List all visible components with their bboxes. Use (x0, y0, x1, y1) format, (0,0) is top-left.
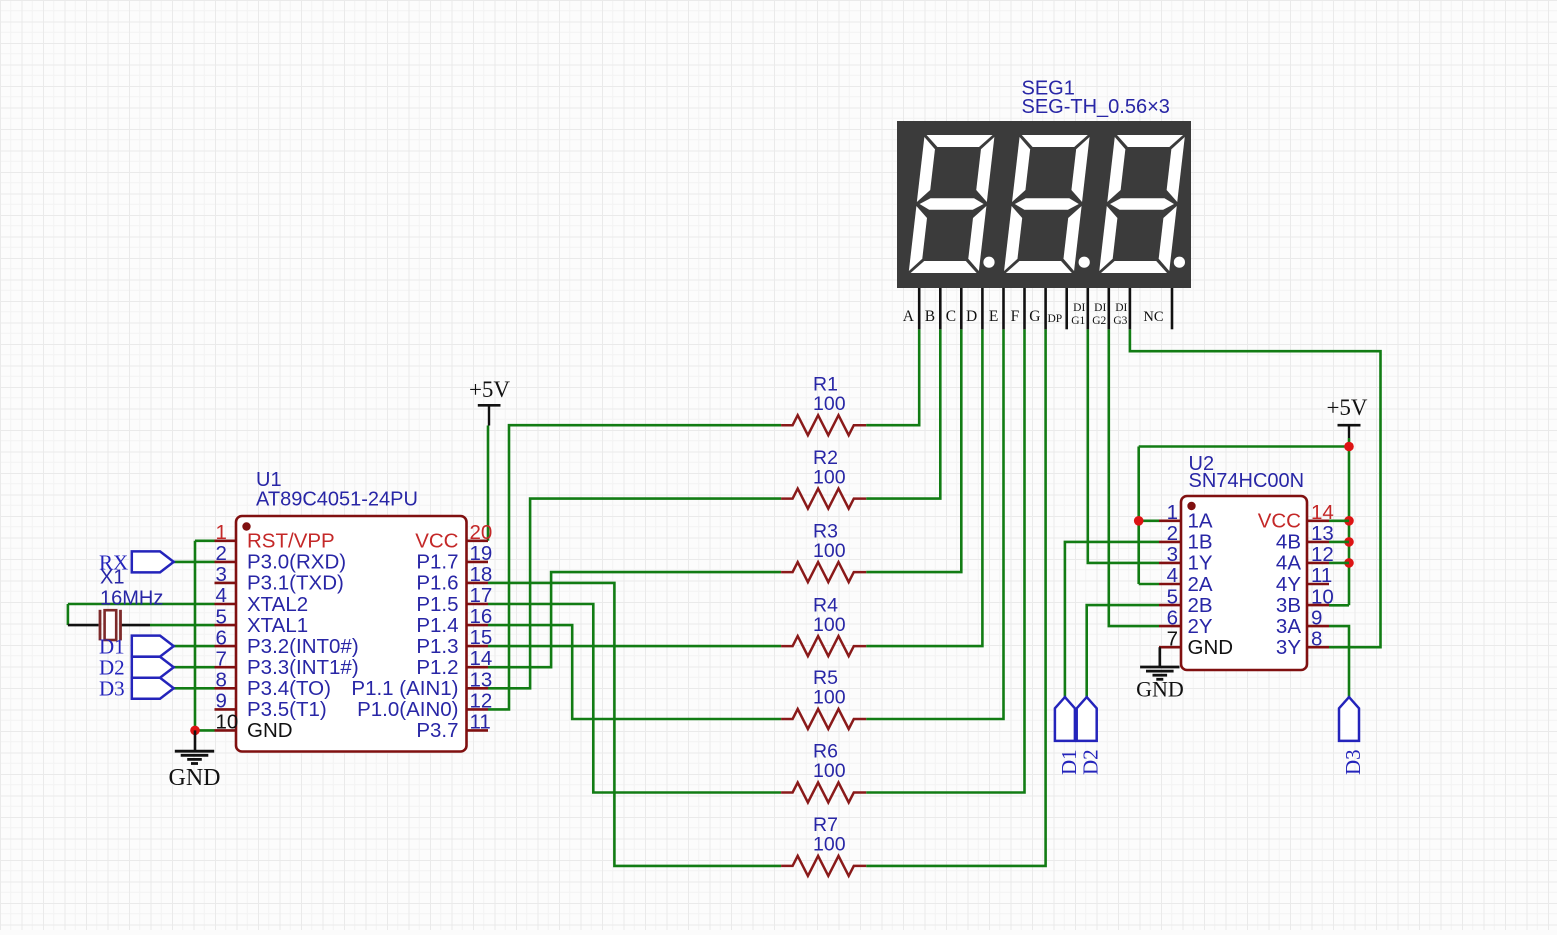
svg-text:P1.4: P1.4 (416, 614, 458, 637)
flag D1 (input, points right) (132, 636, 174, 657)
svg-text:VCC: VCC (1258, 510, 1301, 533)
svg-text:2B: 2B (1188, 594, 1213, 617)
svg-text:D1: D1 (1057, 749, 1081, 775)
svg-text:1: 1 (216, 521, 227, 544)
U1 pin 8 P3.4(TO) (215, 687, 237, 690)
svg-text:XTAL2: XTAL2 (247, 593, 308, 616)
flag D2 (input, points right) (132, 657, 174, 678)
display pin F (1023, 288, 1026, 329)
svg-text:P3.4(TO): P3.4(TO) (247, 677, 331, 700)
svg-text:E: E (989, 308, 998, 325)
svg-text:C: C (946, 308, 956, 325)
svg-text:100: 100 (813, 760, 846, 782)
svg-text:8: 8 (1311, 627, 1322, 650)
svg-text:SN74HC00N: SN74HC00N (1189, 470, 1305, 492)
wire net D2: U2 pin5 2B to D2 flag (1087, 605, 1159, 697)
svg-text:NC: NC (1143, 309, 1163, 325)
resistor R7 (781, 856, 866, 876)
svg-text:GND: GND (247, 719, 293, 742)
svg-text:P1.2: P1.2 (416, 656, 458, 679)
display digit 1 (909, 135, 995, 273)
resistor R3 (781, 562, 866, 582)
resistor R6 (781, 783, 866, 803)
svg-text:3: 3 (1167, 543, 1178, 566)
svg-text:GND: GND (169, 765, 221, 791)
svg-text:7: 7 (216, 647, 227, 670)
svg-text:D2: D2 (1079, 749, 1103, 775)
svg-text:RX: RX (99, 551, 128, 575)
U2 pin 2 1B (1159, 541, 1181, 544)
svg-text:3Y: 3Y (1276, 636, 1301, 659)
U1 pin 16 P1.4 (467, 624, 489, 627)
wire +5V to U2 pin10 3B (1329, 604, 1349, 607)
U1 pin 6 P3.2(INT0#) (215, 645, 237, 648)
svg-text:P1.0(AIN0): P1.0(AIN0) (357, 698, 458, 721)
resistor R4 (781, 636, 866, 656)
svg-text:10: 10 (1311, 585, 1334, 608)
wire +5V horizontal to left vertical (1139, 445, 1349, 448)
U2 pin 5 2B (1159, 604, 1181, 607)
svg-text:+5V: +5V (1326, 395, 1367, 420)
U2 pin 11 4Y (1307, 583, 1329, 586)
svg-text:4B: 4B (1276, 531, 1301, 554)
svg-text:2: 2 (216, 542, 227, 565)
wire RST net: pin1 stub to vertical (195, 539, 215, 542)
svg-text:11: 11 (470, 710, 491, 733)
svg-text:DP: DP (1047, 313, 1062, 325)
svg-text:12: 12 (470, 689, 493, 712)
display pin G (1044, 288, 1047, 329)
svg-text:G: G (1029, 308, 1040, 325)
svg-text:100: 100 (813, 834, 846, 856)
ground symbol below U2 pin7 (1159, 647, 1162, 667)
svg-text:GND: GND (1188, 636, 1234, 659)
resistor R1 (781, 415, 866, 435)
display pin DIG1 (1087, 288, 1090, 329)
svg-text:2Y: 2Y (1188, 615, 1213, 638)
svg-text:P1.7: P1.7 (416, 551, 458, 574)
svg-text:DI: DI (1115, 302, 1127, 314)
U1 pin 4 XTAL2 (215, 603, 237, 606)
wire crystal left lead (black) (68, 624, 99, 627)
U1 pin 15 P1.3 (467, 645, 489, 648)
wire DIG2 to U2 pin6 2Y (1109, 329, 1159, 626)
U1 pin 18 P1.6 (467, 582, 489, 585)
svg-text:6: 6 (216, 626, 227, 649)
wire net P1.3: U1 pin15 to R4 left (488, 645, 781, 648)
svg-text:P3.3(INT1#): P3.3(INT1#) (247, 656, 359, 679)
svg-text:DI: DI (1073, 302, 1085, 314)
U2 pin 10 3B (1307, 604, 1329, 607)
U2 pin 3 1Y (1159, 562, 1181, 565)
resistor R2 (781, 489, 866, 509)
U1 pin 12 P1.0(AIN0) (467, 708, 489, 711)
U2 pin 9 3A (1307, 625, 1329, 628)
wire D3 flag to U1 pin8 (174, 687, 215, 690)
display pin C (960, 288, 963, 329)
svg-text:A: A (903, 308, 915, 325)
svg-text:2: 2 (1167, 522, 1178, 545)
svg-text:100: 100 (813, 687, 846, 709)
svg-text:P1.1 (AIN1): P1.1 (AIN1) (351, 677, 458, 700)
svg-text:16MHz: 16MHz (100, 588, 163, 610)
svg-text:5: 5 (1167, 585, 1178, 608)
wire +5V vertical: bar to U2 pin10 corner (1348, 438, 1351, 605)
wire R6 to display segment F (866, 329, 1024, 792)
wire U2 pin12 4A to +5V (1329, 562, 1349, 565)
wire XTAL2 vertical down to crystal row (67, 604, 70, 625)
svg-text:7: 7 (1167, 627, 1178, 650)
wire U1 pin10 GND to junction (195, 729, 215, 732)
U1 pin 9 P3.5(T1) (215, 708, 237, 711)
wire XTAL1 to U1 pin5 (150, 624, 215, 627)
svg-text:AT89C4051-24PU: AT89C4051-24PU (256, 489, 418, 511)
U1 pin 11 P3.7 (467, 729, 489, 732)
wire RX flag to U1 pin2 (173, 561, 215, 564)
flag D2 (points up) (1077, 697, 1097, 741)
svg-text:G1: G1 (1071, 315, 1085, 327)
flag D1 (points up) (1055, 697, 1075, 741)
display pin D (981, 288, 984, 329)
svg-text:15: 15 (470, 626, 493, 649)
svg-text:14: 14 (1311, 501, 1334, 524)
wire net P1.6: U1 pin18 to R7 left (488, 583, 781, 866)
wire D2 flag to U1 pin7 (174, 666, 215, 669)
svg-text:5: 5 (216, 605, 227, 628)
svg-text:F: F (1011, 308, 1020, 325)
U2 pin 7 GND (1159, 646, 1181, 649)
display decimal point 2 (1079, 257, 1090, 268)
svg-text:P1.6: P1.6 (416, 572, 458, 595)
wire to U2 pin4 2A (1139, 583, 1159, 586)
svg-text:12: 12 (1311, 543, 1334, 566)
U2 pin1 indicator dot (1187, 502, 1195, 510)
display pin B (939, 288, 942, 329)
svg-text:P3.5(T1): P3.5(T1) (247, 698, 327, 721)
display pin DIG3 (1129, 288, 1132, 329)
wire +5V left vertical to U2 pin4 row (1137, 447, 1140, 585)
op-amp/IC U1 AT89C4051-24PU body (236, 516, 467, 752)
wire to U2 pin1 1A (1139, 519, 1159, 522)
svg-text:4: 4 (216, 584, 227, 607)
U2 pin 1 1A (1159, 519, 1181, 522)
svg-text:100: 100 (813, 540, 846, 562)
wire R1 to display segment A (866, 329, 919, 425)
U2 pin 13 4B (1307, 541, 1329, 544)
svg-text:SEG-TH_0.56×3: SEG-TH_0.56×3 (1022, 96, 1170, 118)
resistor R5 (781, 709, 866, 729)
svg-text:3B: 3B (1276, 594, 1301, 617)
wire +5V to U1 pin20 VCC (487, 426, 490, 541)
svg-text:2A: 2A (1188, 573, 1213, 596)
svg-text:1B: 1B (1188, 531, 1213, 554)
svg-text:P3.1(TXD): P3.1(TXD) (247, 572, 344, 595)
svg-text:14: 14 (470, 647, 493, 670)
U1 pin 10 GND (215, 729, 237, 732)
seven-segment display SEG1 body (897, 121, 1191, 288)
wire U2 pin14 VCC to +5V (1329, 519, 1349, 522)
svg-text:P1.5: P1.5 (416, 593, 458, 616)
svg-text:B: B (925, 308, 935, 325)
svg-text:RST/VPP: RST/VPP (247, 530, 335, 553)
flag D3 (points up) (1339, 697, 1359, 741)
display pin NC (1171, 288, 1174, 329)
wire crystal right lead (black) (120, 624, 151, 627)
ground symbol below U1 (194, 730, 197, 751)
wire R5 to display segment E (866, 329, 1003, 719)
display digit 3 (1099, 135, 1185, 273)
svg-text:4Y: 4Y (1276, 573, 1301, 596)
svg-text:16: 16 (470, 605, 493, 628)
svg-text:1Y: 1Y (1188, 552, 1213, 575)
wire U2 pin13 4B to +5V (1329, 541, 1349, 544)
wire R3 to display segment C (866, 329, 961, 572)
U1 pin 13 P1.1 (AIN1) (467, 687, 489, 690)
wire R4 to display segment D (866, 329, 982, 646)
svg-text:4: 4 (1167, 564, 1178, 587)
svg-text:11: 11 (1311, 564, 1332, 587)
svg-text:G3: G3 (1113, 315, 1127, 327)
U1 pin 17 P1.5 (467, 603, 489, 606)
display pin DIG2 (1108, 288, 1111, 329)
svg-text:+5V: +5V (469, 377, 510, 402)
junction +5V bar (1344, 442, 1354, 452)
svg-text:10: 10 (216, 711, 239, 734)
svg-text:19: 19 (470, 542, 493, 565)
U1 pin 1 RST/VPP (215, 539, 237, 542)
svg-text:8: 8 (216, 669, 227, 692)
svg-text:P1.3: P1.3 (416, 635, 458, 658)
svg-text:P3.0(RXD): P3.0(RXD) (247, 551, 346, 574)
wire net P1.1: U1 pin13 to R2 left (488, 499, 781, 689)
display digit 2 (1004, 135, 1090, 273)
display pin A (918, 288, 921, 329)
display pin DP (1065, 288, 1068, 329)
svg-text:D: D (966, 308, 977, 325)
svg-text:17: 17 (470, 584, 493, 607)
U1 pin 2 P3.0(RXD) (215, 561, 237, 564)
wire R7 to display segment G (866, 329, 1045, 866)
display pin E (1002, 288, 1005, 329)
wire net D1: U2 pin2 1B to D1 flag (1065, 542, 1159, 697)
U1 pin 7 P3.3(INT1#) (215, 666, 237, 669)
svg-text:18: 18 (470, 563, 493, 586)
svg-text:100: 100 (813, 393, 846, 415)
svg-text:GND: GND (1136, 677, 1184, 702)
U1 pin 3 P3.1(TXD) (215, 582, 237, 585)
junction +5V at U2 pin12 (1344, 558, 1354, 568)
flag RX (input, points right) (132, 551, 174, 572)
wire net P1.0: U1 pin12 to R1 left (488, 425, 781, 709)
svg-text:P3.2(INT0#): P3.2(INT0#) (247, 635, 359, 658)
svg-text:4A: 4A (1276, 552, 1301, 575)
U2 pin 6 2Y (1159, 625, 1181, 628)
svg-text:13: 13 (1311, 522, 1334, 545)
wire net D3: U2 pin9 3A to D3 flag (1329, 626, 1349, 697)
svg-text:1: 1 (1167, 501, 1178, 524)
wire R2 to display segment B (866, 329, 940, 498)
junction U1 pin10 / RST / GND (190, 726, 200, 736)
U1 pin1 indicator dot (242, 522, 250, 530)
U1 pin 5 XTAL1 (215, 624, 237, 627)
svg-text:100: 100 (813, 466, 846, 488)
svg-text:6: 6 (1167, 606, 1178, 629)
wire net P1.2: U1 pin14 to R3 left (488, 572, 781, 667)
U2 pin 14 VCC (1307, 519, 1329, 522)
wire DIG3 to U2 pin8 3Y (1130, 329, 1381, 647)
svg-text:1A: 1A (1188, 510, 1213, 533)
wire net P1.4: U1 pin16 to R5 left (488, 625, 781, 719)
svg-text:20: 20 (470, 521, 493, 544)
junction +5V at U2 pin13 (1344, 537, 1354, 547)
svg-text:9: 9 (216, 690, 227, 713)
svg-text:XTAL1: XTAL1 (247, 614, 308, 637)
svg-text:D3: D3 (99, 677, 125, 701)
U2 pin 4 2A (1159, 583, 1181, 586)
U2 pin 12 4A (1307, 562, 1329, 565)
U1 pin 19 P1.7 (467, 561, 489, 564)
wire net P1.5: U1 pin17 to R6 left (488, 604, 781, 793)
svg-text:3: 3 (216, 563, 227, 586)
wire DIG1 to U2 pin3 1Y (1088, 329, 1159, 563)
svg-text:G2: G2 (1092, 315, 1106, 327)
wire D1 flag to U1 pin6 (174, 645, 215, 648)
junction +5V at U2 pin1 (1134, 516, 1144, 526)
svg-text:3A: 3A (1276, 615, 1301, 638)
crystal X1 16MHz (99, 610, 102, 641)
junction +5V at U2 pin14 (1344, 516, 1354, 526)
svg-text:100: 100 (813, 614, 846, 636)
display decimal point 3 (1174, 257, 1185, 268)
svg-text:D3: D3 (1341, 749, 1365, 775)
flag D3 (input, points right) (132, 678, 174, 699)
U2 pin 8 3Y (1307, 646, 1329, 649)
U1 pin 20 VCC (467, 539, 489, 542)
wire RST net vertical to GND junction (194, 541, 197, 731)
svg-text:13: 13 (470, 668, 493, 691)
svg-text:VCC: VCC (415, 530, 458, 553)
svg-text:9: 9 (1311, 606, 1322, 629)
wire XTAL2 horizontal (68, 603, 215, 606)
svg-text:DI: DI (1094, 302, 1106, 314)
display decimal point 1 (983, 257, 994, 268)
U1 pin 14 P1.2 (467, 666, 489, 669)
svg-text:P3.7: P3.7 (416, 719, 458, 742)
IC U2 SN74HC00N body (1181, 496, 1307, 670)
